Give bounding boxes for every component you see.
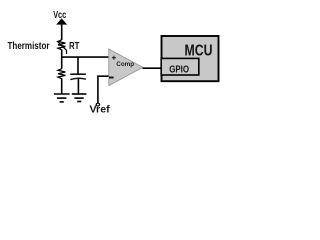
svg-text:RT: RT <box>69 41 80 52</box>
thermistor diagonal mark <box>57 41 66 54</box>
wire: comparator output to GPIO <box>143 67 161 69</box>
svg-text:Vref: Vref <box>90 105 111 116</box>
wire: junction down to resistor <box>61 57 63 69</box>
thermistor RT zigzag <box>58 40 65 50</box>
label MCU <box>185 43 213 60</box>
ground (under capacitor) <box>72 94 87 102</box>
MCU box <box>162 36 219 81</box>
label RT <box>69 41 80 52</box>
svg-text:Vcc: Vcc <box>53 10 66 21</box>
wire: thermistor bottom lead to junction <box>61 49 63 57</box>
wire: node to comparator + input <box>61 56 109 58</box>
wire: comparator minus input from Vref <box>98 76 109 103</box>
label GPIO <box>169 65 189 76</box>
resistor (divider leg) <box>58 69 65 79</box>
ground (under resistor) <box>54 94 70 102</box>
svg-text:Thermistor: Thermistor <box>8 41 50 52</box>
comparator U1 (Comp) <box>109 49 143 86</box>
Vcc power arrow <box>56 18 67 40</box>
svg-text:GPIO: GPIO <box>169 65 189 76</box>
svg-text:MCU: MCU <box>185 43 213 60</box>
label Thermistor <box>8 41 50 52</box>
svg-text:Comp: Comp <box>116 61 134 68</box>
capacitor C <box>70 74 86 79</box>
label Vref <box>90 105 111 116</box>
GPIO box <box>161 58 199 75</box>
label Vcc <box>53 10 66 21</box>
wire: junction down to capacitor <box>77 57 79 74</box>
wire: resistor to ground <box>61 78 63 93</box>
wire: capacitor to ground <box>77 79 79 94</box>
Vref terminal <box>96 103 99 106</box>
